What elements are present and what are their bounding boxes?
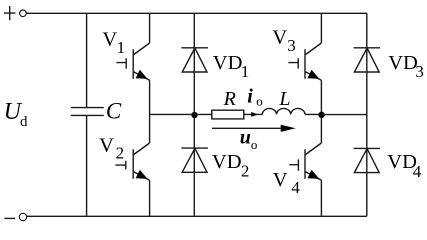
svg-text:R: R [223,88,236,110]
node A junction dot [191,112,197,118]
svg-text:V: V [273,169,288,191]
wire: right leg middle (V3 emitter to V4 collector) [320,80,322,143]
label V1 [102,28,125,57]
wire: right leg bottom (V4 emitter to bottom rail) [320,180,322,216]
svg-text:VD: VD [388,52,418,74]
svg-text:o: o [251,137,258,152]
svg-text:1: 1 [117,38,126,57]
svg-text:V: V [102,28,117,50]
transistor V2 (IGBT) [115,143,149,180]
svg-text:VD: VD [212,151,242,173]
wire: L to right leg segment [305,113,321,115]
label V4 [273,169,301,197]
diode VD3 [354,48,381,72]
wire: capacitor branch lower [86,116,88,216]
svg-text:3: 3 [287,36,296,55]
svg-text:L: L [278,88,290,110]
minus terminal sign [4,217,15,219]
label io [247,86,263,109]
resistor R box [212,110,244,119]
label uo [240,127,258,152]
label VD2 [212,151,250,180]
diode VD2 [181,148,208,172]
wire: right diode branch vertical [366,13,368,216]
svg-text:o: o [256,94,263,109]
transistor V3 (IGBT) [288,43,321,80]
positive terminal circle [20,10,27,17]
diode VD4 [354,148,381,172]
inductor L coil [262,108,305,114]
svg-text:i: i [247,86,253,108]
svg-text:V: V [272,26,287,48]
negative terminal circle [19,213,26,220]
wire: left leg top (rail to V1 collector) [149,13,151,43]
wire: bottom rail [27,215,367,217]
svg-text:4: 4 [291,178,300,197]
svg-text:2: 2 [116,143,125,162]
wire: left leg bottom (V2 emitter to bottom rail) [149,180,151,216]
transistor V1 (IGBT) [116,43,149,80]
label V3 [272,26,295,55]
wire: load line right segment (node B to right diode branch) [321,114,366,116]
label VD3 [388,52,424,81]
label VD4 [387,151,422,181]
current io arrowhead [251,112,258,117]
wire: left diode branch vertical [193,13,195,216]
svg-text:d: d [20,114,28,130]
capacitor C plates [71,108,104,116]
svg-text:V: V [99,134,114,156]
wire: top rail [26,12,367,14]
svg-text:4: 4 [413,162,422,181]
label V2 [99,134,124,162]
svg-text:C: C [106,99,122,124]
label Ud [4,99,28,130]
svg-text:VD: VD [213,52,243,74]
wire: load line left segment [150,113,212,115]
svg-text:1: 1 [241,62,250,81]
plus terminal sign [4,6,15,20]
svg-text:u: u [240,127,251,149]
svg-text:2: 2 [241,162,250,181]
wire: R to L segment [244,113,263,115]
voltage uo arrow [212,125,296,132]
label VD1 [213,52,249,81]
transistor V4 (IGBT) [289,143,321,180]
node B junction dot [318,112,324,118]
svg-text:3: 3 [415,62,424,81]
wire: right leg top (rail to V3 collector) [320,13,322,43]
diode VD1 [181,48,208,72]
wire: capacitor branch upper [86,13,88,107]
wire: left leg middle (V1 emitter to V2 collector) [149,80,151,143]
